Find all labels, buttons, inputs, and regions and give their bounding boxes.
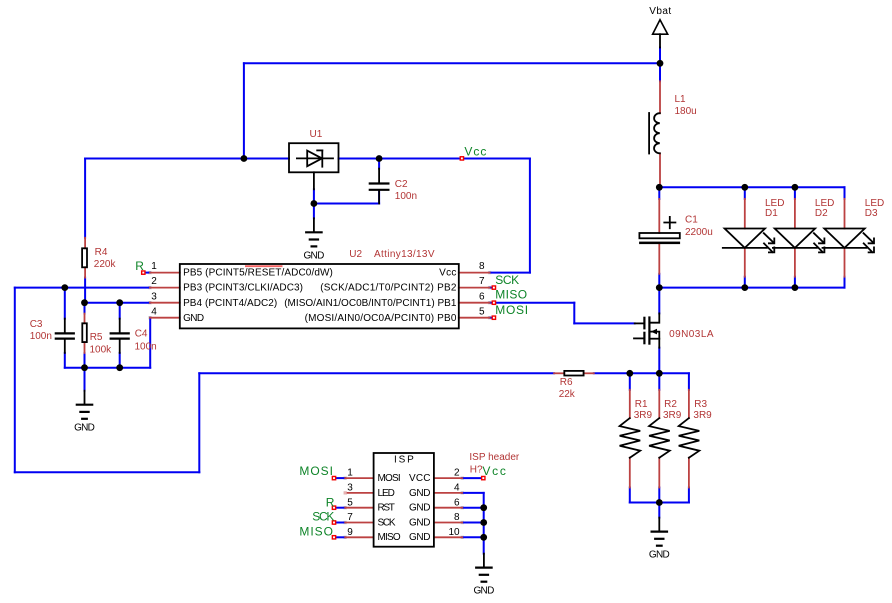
ISP pin 9 stub <box>345 536 373 538</box>
junction ISP gnd pin10 <box>480 534 487 541</box>
wire R2 top stub <box>658 373 660 390</box>
junction L1 C1 LED rail <box>656 184 663 191</box>
wire R5 bottom stub <box>84 353 86 368</box>
svg-text:22k: 22k <box>559 389 576 400</box>
wire C2 top stub <box>378 159 380 169</box>
svg-text:MISO: MISO <box>378 532 401 543</box>
node MISO marker at ISP pin9 <box>332 536 335 539</box>
ISP pin 4 stub <box>434 492 462 494</box>
node Vcc marker on rail <box>460 157 463 160</box>
wire pin8 stub to Vcc <box>490 272 530 274</box>
wire Vbat lead to junction <box>659 48 661 64</box>
svg-text:MISO: MISO <box>495 288 527 302</box>
wire C1 bottom stub <box>658 274 660 288</box>
svg-text:C4: C4 <box>135 329 148 340</box>
junction C1 bottom drain <box>656 284 663 291</box>
diode U1 through line <box>297 157 333 159</box>
svg-text:GND: GND <box>409 503 431 514</box>
wire left loop bottom <box>15 471 200 473</box>
wire ISP gnd bus down <box>483 493 485 554</box>
svg-text:GND: GND <box>183 313 204 324</box>
svg-text:R: R <box>326 495 335 509</box>
wire shunt top rail <box>594 372 689 374</box>
capacitor C1 polarized <box>639 217 680 244</box>
resistor R3 zigzag body <box>679 418 700 458</box>
svg-text:D2: D2 <box>815 208 828 219</box>
R2 bottom pin <box>658 458 660 488</box>
U2 pin 2 stub <box>150 287 180 289</box>
svg-text:GND: GND <box>409 532 431 543</box>
wire LED anode rail <box>659 186 844 188</box>
wire PB3 rail <box>15 287 150 289</box>
svg-text:PB3 (PCINT3/CLKI/ADC3): PB3 (PCINT3/CLKI/ADC3) <box>183 283 303 294</box>
R3 top pin <box>688 390 690 418</box>
R1 bottom pin <box>629 458 631 488</box>
junction ISP gnd pin6 <box>480 504 487 511</box>
U2 pin 8 stub <box>459 272 490 274</box>
junction R2 bottom <box>656 499 663 506</box>
node R marker at U2 pin1 <box>142 271 145 274</box>
svg-text:6: 6 <box>479 291 485 302</box>
supply symbol Vbat <box>653 20 668 48</box>
wire D2 cathode stub <box>794 277 796 288</box>
U2 pin 3 stub <box>150 302 180 304</box>
resistor R1 zigzag body <box>620 418 641 458</box>
node MISO marker at U2 pin6 <box>492 301 495 304</box>
wire L1 top stub <box>659 63 661 81</box>
wire R3 corner stub <box>688 373 690 390</box>
wire Vcc down to pin8 <box>529 159 531 273</box>
svg-text:GND: GND <box>409 517 431 528</box>
wire D3 cathode corner <box>844 277 846 288</box>
wire C4 top stub <box>119 303 121 319</box>
wire C1 top stub <box>658 187 660 199</box>
junction Vcc C2 <box>376 155 383 162</box>
svg-text:Vcc: Vcc <box>464 144 486 158</box>
diode U1 gnd lead <box>313 172 315 189</box>
svg-text:LED: LED <box>815 198 834 209</box>
svg-text:GND: GND <box>649 550 670 561</box>
R6 right pin <box>584 372 594 374</box>
wire R1 top stub <box>629 373 631 390</box>
wire FET drain stub <box>658 288 660 314</box>
wire pin6 tiny <box>490 302 493 304</box>
svg-text:GND: GND <box>304 250 325 261</box>
ground below shunt resistors <box>649 518 670 561</box>
svg-text:2: 2 <box>151 276 157 287</box>
svg-text:D1: D1 <box>765 208 778 219</box>
D3 cathode pin <box>844 248 846 277</box>
svg-text:C2: C2 <box>395 179 408 190</box>
junction U1 input <box>241 155 248 162</box>
wire U1 gnd node down <box>313 189 315 218</box>
diode U1 cathode bar <box>321 150 323 166</box>
diode U1 cathode hook <box>317 149 322 151</box>
L1 bottom pin <box>659 153 661 187</box>
D3 anode pin <box>844 199 846 229</box>
wire gate run down <box>573 303 575 324</box>
svg-text:PB5 (PCINT5/RESET/ADC0/dW): PB5 (PCINT5/RESET/ADC0/dW) <box>183 268 333 279</box>
svg-text:180u: 180u <box>675 106 697 117</box>
wire ISP pin2 tiny <box>462 477 482 479</box>
svg-text:3: 3 <box>347 483 353 494</box>
wire IC pin4 to ground rail <box>149 318 151 368</box>
svg-text:MOSI: MOSI <box>495 303 528 317</box>
node MOSI marker at ISP pin1 <box>332 476 335 479</box>
svg-text:GND: GND <box>409 488 431 499</box>
svg-text:R6: R6 <box>560 377 573 388</box>
capacitor C2 <box>370 169 389 204</box>
svg-text:3R9: 3R9 <box>693 410 712 421</box>
D1 anode pin <box>744 199 746 229</box>
svg-text:1: 1 <box>151 261 157 272</box>
wire left loop down <box>14 288 16 473</box>
wire C3 top stub <box>64 288 66 319</box>
svg-text:2200u: 2200u <box>685 227 713 238</box>
R2 top pin <box>658 390 660 418</box>
svg-text:4: 4 <box>454 483 460 494</box>
wire ISP pin7 tiny <box>336 522 345 524</box>
junction R5 bottom <box>81 364 88 371</box>
wire pin5 tiny <box>490 317 493 319</box>
wire D2 anode stub <box>794 187 796 199</box>
wire ISP pin8 tiny <box>462 522 484 524</box>
wire down to R4 <box>84 159 86 238</box>
svg-text:R5: R5 <box>90 332 103 343</box>
wire gate long run to R6 <box>199 372 554 374</box>
R5 bottom pin <box>84 342 86 353</box>
svg-text:9: 9 <box>347 527 353 538</box>
wire pin1 tiny <box>145 272 150 274</box>
R5 top pin <box>84 314 86 324</box>
wire ISP pin5 tiny <box>336 507 345 509</box>
svg-text:100n: 100n <box>135 341 157 352</box>
LED D2 symbol <box>773 229 825 253</box>
wire R2 bottom stub <box>658 488 660 503</box>
svg-text:H?: H? <box>470 465 483 476</box>
svg-text:C1: C1 <box>685 214 698 225</box>
svg-text:100k: 100k <box>90 345 113 356</box>
wire C3 bottom stub <box>64 353 66 368</box>
node SCK marker at U2 pin7 <box>492 286 495 289</box>
node R marker at ISP pin5 <box>332 506 335 509</box>
wire gate run to FET <box>574 322 634 324</box>
svg-text:ISP header: ISP header <box>469 452 520 463</box>
wire PB4 rail <box>85 302 151 304</box>
svg-text:D3: D3 <box>865 208 878 219</box>
wire battery rail down-left <box>243 63 245 158</box>
svg-text:8: 8 <box>454 512 460 523</box>
wire pin7 tiny <box>490 287 493 289</box>
pin end markers (pale) <box>148 271 491 539</box>
svg-text:R2: R2 <box>664 399 677 410</box>
junction D1 anode <box>741 184 748 191</box>
ISP pin 7 stub <box>345 522 373 524</box>
wire D1 cathode stub <box>744 277 746 288</box>
svg-text:(MOSI/AIN0/OC0A/PCINT0) PB0: (MOSI/AIN0/OC0A/PCINT0) PB0 <box>305 313 457 324</box>
resistor R4 body <box>82 248 87 267</box>
wire LED cathode rail <box>659 287 844 289</box>
svg-text:220k: 220k <box>94 259 117 270</box>
wire Vcc rail <box>339 158 530 160</box>
U2 pin 4 stub <box>150 317 180 319</box>
wire C4 bottom stub <box>119 353 121 368</box>
svg-text:U2: U2 <box>349 249 362 260</box>
svg-text:5: 5 <box>347 497 353 508</box>
ground below R5 filter <box>74 391 95 434</box>
svg-text:7: 7 <box>347 512 353 523</box>
svg-text:(SCK/ADC1/T0/PCINT2) PB2: (SCK/ADC1/T0/PCINT2) PB2 <box>320 283 457 294</box>
svg-text:5: 5 <box>479 306 485 317</box>
R3 bottom pin <box>688 458 690 488</box>
transistor Q1 09N03LA n-channel MOSFET <box>634 313 659 347</box>
U2 RESET overline <box>245 265 283 267</box>
junction D2 anode <box>792 184 799 191</box>
diode U1 body box <box>289 143 339 172</box>
wire to GND symbol shunts <box>658 503 660 518</box>
wire shunt bottom rail <box>630 502 689 504</box>
svg-text:VCC: VCC <box>409 473 431 484</box>
wire R3 bottom stub <box>688 488 690 503</box>
wire ISP pin9 tiny <box>336 536 345 538</box>
junction ISP gnd pin8 <box>480 519 487 526</box>
svg-text:U1: U1 <box>310 129 323 140</box>
D2 anode pin <box>794 199 796 229</box>
svg-text:R: R <box>135 259 144 273</box>
wire battery top rail <box>244 62 660 64</box>
ground below U1 <box>304 218 325 261</box>
svg-text:Attiny13/13V: Attiny13/13V <box>374 249 435 260</box>
resistor R6 body <box>564 371 583 376</box>
svg-text:2: 2 <box>454 468 460 479</box>
junction U1 gnd C2 <box>311 200 318 207</box>
svg-text:10: 10 <box>448 527 460 538</box>
wire D1 anode stub <box>744 187 746 199</box>
wire to GND symbol left <box>84 368 86 391</box>
svg-text:100n: 100n <box>395 191 417 202</box>
wire ISP pin6 tiny <box>462 507 484 509</box>
svg-text:3R9: 3R9 <box>663 410 682 421</box>
svg-text:RST: RST <box>378 503 395 514</box>
U2 pin 7 stub <box>459 287 490 289</box>
svg-text:LED: LED <box>765 198 784 209</box>
svg-text:7: 7 <box>479 276 485 287</box>
D1 cathode pin <box>744 248 746 277</box>
svg-text:LED: LED <box>865 198 884 209</box>
junction FET source R2 <box>656 370 663 377</box>
svg-text:6: 6 <box>454 497 460 508</box>
svg-text:Vcc: Vcc <box>482 464 506 478</box>
junction R4 R5 PB4 rail <box>81 299 88 306</box>
svg-text:(MISO/AIN1/OC0B/INT0/PCINT1) P: (MISO/AIN1/OC0B/INT0/PCINT1) PB1 <box>284 298 457 309</box>
C1 bottom pin <box>658 244 660 274</box>
wire ISP pin1 tiny <box>336 477 345 479</box>
wire D3 anode corner <box>844 187 846 199</box>
svg-text:8: 8 <box>479 261 485 272</box>
svg-text:R1: R1 <box>635 399 648 410</box>
L1 top pin <box>659 81 661 113</box>
wire loop up <box>198 373 200 472</box>
inductor L1 <box>649 113 660 154</box>
svg-text:PB4 (PCINT4/ADC2): PB4 (PCINT4/ADC2) <box>183 298 277 309</box>
svg-text:MOSI: MOSI <box>299 464 333 478</box>
ISP pin 2 stub <box>434 477 462 479</box>
op-amp U2 ATtiny13 box <box>180 264 459 328</box>
U2 pin 5 stub <box>459 317 490 319</box>
wire R1 bottom stub <box>629 488 631 503</box>
svg-text:L1: L1 <box>675 94 687 105</box>
wire R5 top stub <box>84 303 86 314</box>
svg-text:3R9: 3R9 <box>634 410 653 421</box>
svg-text:C3: C3 <box>30 319 43 330</box>
svg-text:MISO: MISO <box>299 524 333 538</box>
wire filter ground rail <box>65 367 150 369</box>
svg-text:4: 4 <box>151 306 157 317</box>
junction Vbat rail <box>657 60 664 67</box>
C1 top pin <box>658 199 660 233</box>
resistor R2 zigzag body <box>649 418 670 458</box>
LED D3 symbol <box>823 229 875 253</box>
ground below ISP <box>474 554 495 597</box>
wire C2 bottom stub <box>378 191 380 204</box>
R4 top pin <box>84 238 86 249</box>
resistor R5 body <box>82 323 87 342</box>
ISP pin 5 stub <box>345 507 373 509</box>
junction C4 bottom <box>116 364 123 371</box>
svg-text:SCK: SCK <box>495 273 519 287</box>
svg-text:Vcc: Vcc <box>439 268 456 279</box>
ISP pin 3 stub <box>345 492 373 494</box>
node SCK marker at ISP pin7 <box>332 521 335 524</box>
junction D2 cathode <box>792 284 799 291</box>
ISP pin 8 stub <box>434 522 462 524</box>
U2 pin 1 stub <box>150 272 180 274</box>
svg-text:R3: R3 <box>694 399 707 410</box>
svg-text:SCK: SCK <box>312 510 334 524</box>
wire ISP pin4 to gnd bus <box>462 492 484 494</box>
svg-text:1: 1 <box>347 468 353 479</box>
junction C3 top PB3 rail <box>61 284 68 291</box>
U2 pin 6 stub <box>459 302 490 304</box>
wire PB1 to gate run <box>496 302 574 304</box>
node Vcc marker at ISP pin2 <box>482 476 485 479</box>
R1 top pin <box>629 390 631 418</box>
capacitor C3 <box>56 319 74 353</box>
svg-text:09N03LA: 09N03LA <box>669 329 714 340</box>
svg-text:100n: 100n <box>30 331 52 342</box>
wire R4 bottom to PB4 rail <box>84 278 86 303</box>
svg-text:GND: GND <box>474 586 495 597</box>
ISP header SV1 box <box>374 453 434 547</box>
wire U1 gnd to C2 bottom <box>314 203 379 205</box>
svg-text:R4: R4 <box>95 247 108 258</box>
svg-text:3: 3 <box>151 291 157 302</box>
wire ISP pin10 tiny <box>462 536 484 538</box>
wire to U1 input <box>85 158 289 160</box>
junction C4 top <box>116 299 123 306</box>
wire FET source to rail <box>658 348 660 374</box>
R4 bottom pin <box>84 267 86 277</box>
D2 cathode pin <box>794 248 796 277</box>
svg-text:MOSI: MOSI <box>378 473 401 484</box>
svg-text:Vbat: Vbat <box>649 6 671 17</box>
LED D1 symbol <box>723 229 775 253</box>
capacitor C4 <box>111 319 129 353</box>
ISP pin 6 stub <box>434 507 462 509</box>
svg-text:GND: GND <box>74 423 95 434</box>
junction R1 top <box>626 370 633 377</box>
junction D1 cathode <box>741 284 748 291</box>
diode U1 triangle <box>307 151 322 167</box>
ISP pin 1 stub <box>345 477 373 479</box>
svg-text:LED: LED <box>378 488 395 499</box>
R6 left pin <box>554 372 564 374</box>
ISP pin3 open end marker <box>344 491 347 494</box>
svg-text:SCK: SCK <box>378 517 396 528</box>
node MOSI marker at U2 pin5 <box>492 316 495 319</box>
ISP pin 10 stub <box>434 536 462 538</box>
